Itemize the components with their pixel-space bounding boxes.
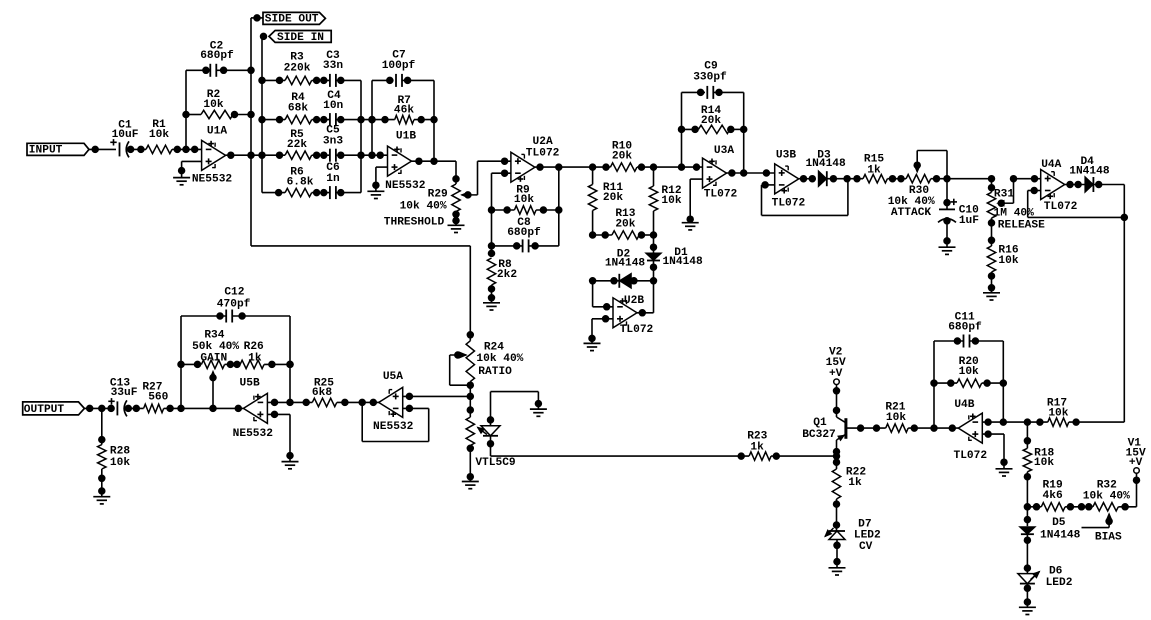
svg-text:VTL5C9: VTL5C9 (475, 457, 516, 469)
wire network to U1B inverting input (361, 152, 388, 159)
diode D1 (646, 235, 704, 281)
svg-text:U5A: U5A (383, 371, 403, 383)
ground at U1B (367, 191, 384, 198)
svg-text:NE5532: NE5532 (373, 421, 414, 433)
svg-text:22k: 22k (287, 139, 307, 151)
svg-text:U4B: U4B (954, 399, 974, 411)
op-amp U4B (954, 399, 988, 462)
svg-text:NE5532: NE5532 (233, 428, 274, 440)
ground at U2B (584, 343, 601, 350)
svg-text:R34: R34 (204, 329, 224, 341)
svg-text:10k 40%: 10k 40% (1083, 490, 1130, 502)
wire U1B non-inverting input to ground (373, 167, 388, 191)
ground at VTL5C9 LDR (462, 482, 479, 489)
wire U4B inverting input (982, 419, 1048, 426)
wire R29 wiper to U2A non-inverting input (478, 158, 511, 195)
wire INPUT to C1 (89, 146, 116, 153)
wire C7 left bus (369, 80, 376, 158)
capacitor C8 (492, 217, 559, 253)
svg-text:1N4148: 1N4148 (1069, 166, 1110, 178)
resistor R23 (747, 431, 771, 461)
svg-text:U3B: U3B (776, 149, 796, 161)
wire R31 to U4A non-inverting input (1014, 175, 1041, 182)
potentiometer R24 RATIO (450, 341, 524, 417)
resistor R2 (186, 89, 251, 119)
svg-text:INPUT: INPUT (29, 144, 63, 156)
capacitor C2 (186, 40, 251, 77)
SIDE IN port flag (260, 31, 331, 44)
resistor R28 (98, 408, 131, 496)
svg-text:100pf: 100pf (382, 60, 416, 72)
capacitor C13 (108, 377, 137, 416)
svg-text:U2A: U2A (533, 136, 553, 148)
ground at D7 (829, 568, 846, 575)
svg-text:D6: D6 (1049, 566, 1063, 578)
svg-text:1N4148: 1N4148 (605, 258, 646, 270)
INPUT port flag (27, 143, 89, 156)
svg-text:SIDE IN: SIDE IN (277, 32, 324, 44)
svg-text:C12: C12 (224, 287, 244, 299)
wire U2B non-inverting input to ground (589, 316, 613, 344)
capacitor C4 (312, 90, 361, 126)
svg-text:TL072: TL072 (1044, 201, 1078, 213)
svg-text:1N4148: 1N4148 (662, 256, 703, 268)
svg-text:680pf: 680pf (507, 227, 541, 239)
svg-text:20k: 20k (603, 192, 623, 204)
resistor R11 (588, 167, 623, 235)
wire U2A inverting input feedback (488, 170, 511, 257)
resistor R16 (987, 244, 1019, 292)
potentiometer R34 GAIN (178, 329, 241, 408)
wire U1A non-inverting input to ground (178, 161, 201, 177)
resistor R14 (682, 105, 744, 133)
resistor R17 (1047, 398, 1124, 427)
svg-text:10k: 10k (959, 366, 979, 378)
wire U1A output (226, 152, 262, 159)
side-chain bus vertical (248, 18, 255, 246)
wire R1 to U1A inverting input (172, 146, 202, 153)
svg-text:RATIO: RATIO (478, 366, 512, 378)
svg-text:20k: 20k (612, 150, 632, 162)
wire U5A non-inverting input (403, 393, 471, 400)
potentiometer R29 THRESHOLD (384, 176, 478, 229)
capacitor C3 (312, 50, 361, 87)
svg-text:RELEASE: RELEASE (998, 219, 1045, 231)
resistor R27 (142, 381, 168, 412)
op-amp U3B (772, 149, 806, 209)
ground at R28 (93, 497, 110, 504)
svg-text:33uF: 33uF (111, 387, 138, 399)
svg-text:330pf: 330pf (693, 71, 727, 83)
svg-text:10uF: 10uF (112, 129, 139, 141)
svg-text:3n3: 3n3 (323, 136, 343, 148)
wire C9/R14 left bus (678, 92, 685, 167)
svg-text:NE5532: NE5532 (385, 180, 426, 192)
svg-text:U2B: U2B (624, 295, 644, 307)
resistor R10 (610, 141, 637, 172)
svg-text:1n: 1n (326, 173, 340, 185)
resistor R18 (1023, 422, 1054, 507)
svg-text:NE5532: NE5532 (192, 173, 233, 185)
wire U2A feedback right bus (556, 167, 563, 246)
svg-text:10k 40%: 10k 40% (476, 353, 523, 365)
svg-text:68k: 68k (288, 102, 308, 114)
svg-text:U3A: U3A (714, 145, 734, 157)
capacitor C1 (110, 119, 138, 157)
svg-text:10n: 10n (323, 100, 343, 112)
svg-text:1k: 1k (750, 441, 764, 453)
svg-text:20k: 20k (615, 218, 635, 230)
svg-text:SIDE OUT: SIDE OUT (265, 13, 319, 25)
resistor R15 (863, 153, 906, 183)
wire U3B feedback loop (762, 179, 848, 216)
svg-text:OUTPUT: OUTPUT (24, 404, 65, 416)
ground at R8 (483, 303, 500, 310)
svg-text:1N4148: 1N4148 (805, 158, 846, 170)
resistor R21 (885, 402, 934, 433)
wire Q1 collector (833, 440, 840, 469)
svg-text:10k: 10k (998, 255, 1018, 267)
wire U5A inverting feedback loop (362, 402, 429, 441)
resistor R3 (262, 52, 312, 85)
wire U3B output to D3 (799, 175, 816, 182)
resistor R1 (146, 119, 172, 153)
svg-text:GAIN: GAIN (200, 352, 227, 364)
resistor R22 (832, 467, 866, 532)
LED D6 (1018, 566, 1073, 608)
svg-text:680pf: 680pf (200, 50, 234, 62)
resistor R4 (262, 92, 312, 124)
svg-text:LED2: LED2 (854, 529, 881, 541)
photoresistor VTL5C9 LDR (466, 417, 516, 481)
svg-text:10k: 10k (1048, 407, 1068, 419)
svg-text:+V: +V (829, 368, 843, 380)
wire C7/R7 right bus (431, 80, 438, 161)
svg-text:6.8k: 6.8k (287, 177, 314, 189)
svg-text:50k 40%: 50k 40% (192, 341, 239, 353)
wire U3A non-inverting input to ground (687, 179, 703, 223)
svg-text:R29: R29 (428, 188, 448, 200)
svg-text:R30: R30 (909, 185, 929, 197)
svg-text:BC327: BC327 (802, 429, 836, 441)
resistor R6 (262, 166, 314, 197)
svg-text:TL072: TL072 (772, 197, 806, 209)
svg-text:1uF: 1uF (959, 215, 979, 227)
ground at U4B (996, 469, 1013, 476)
potentiometer R32 BIAS (1082, 480, 1137, 544)
svg-text:TL072: TL072 (704, 188, 738, 200)
wire C11/R20 right bus (1002, 341, 1004, 422)
resistor R25 (312, 378, 379, 407)
svg-text:R31: R31 (994, 188, 1014, 200)
LED D7 (825, 519, 881, 568)
svg-text:U4A: U4A (1041, 159, 1061, 171)
supply V2 +15V (826, 346, 846, 417)
svg-text:220k: 220k (284, 63, 311, 75)
svg-text:BIAS: BIAS (1095, 532, 1122, 544)
svg-text:6k8: 6k8 (312, 387, 332, 399)
capacitor C7 (372, 50, 434, 87)
ground at R29 (448, 225, 465, 232)
filter network right bus (358, 80, 365, 192)
transistor Q1 BC327 (802, 417, 885, 441)
svg-text:20k: 20k (701, 115, 721, 127)
svg-text:10k: 10k (886, 412, 906, 424)
wire C13 to R27 (125, 405, 144, 412)
capacitor C11 (934, 312, 1003, 348)
svg-text:10k: 10k (203, 99, 223, 111)
svg-text:THRESHOLD: THRESHOLD (384, 216, 445, 228)
wire U5B non-inverting input to ground (267, 411, 293, 461)
wire U4A output to D4 (1065, 181, 1085, 188)
svg-text:10k: 10k (149, 129, 169, 141)
ground at U1A (173, 178, 190, 185)
VTL5C9 LED top wire to ground (487, 392, 541, 426)
SIDE OUT port flag (251, 12, 325, 25)
svg-text:Q1: Q1 (813, 417, 827, 429)
diode D5 (1019, 507, 1080, 574)
wire U3A output to U3B (727, 170, 775, 177)
resistor R8 (487, 258, 517, 303)
capacitor C5 (312, 125, 361, 162)
resistor R9 (492, 184, 559, 214)
ground at C10 (939, 247, 956, 254)
svg-text:1k: 1k (248, 352, 262, 364)
op-amp U5A (373, 371, 414, 433)
wire U2A output to R10 (535, 164, 611, 171)
op-amp U5B (233, 377, 274, 440)
potentiometer R30 ATTACK (888, 151, 951, 220)
svg-text:470pf: 470pf (217, 298, 251, 310)
wire OUTPUT to C13 (84, 405, 114, 412)
svg-text:560: 560 (148, 391, 168, 403)
svg-text:R24: R24 (484, 342, 504, 354)
resistor R7 (361, 95, 434, 124)
ground at U5B (282, 462, 299, 469)
svg-text:U5B: U5B (240, 377, 260, 389)
svg-text:CV: CV (859, 541, 873, 553)
control voltage right bus (1121, 185, 1128, 423)
diode D2 (589, 249, 656, 289)
potentiometer R31 RELEASE (987, 175, 1045, 246)
op-amp U4A (1041, 159, 1078, 213)
wire U1B output (412, 158, 457, 179)
wire R10 to U3A inverting input (637, 164, 703, 171)
wire C9/R14 right bus (740, 92, 747, 173)
op-amp U3A (703, 145, 738, 201)
resistor R12 (649, 167, 682, 235)
svg-text:ATTACK: ATTACK (891, 207, 932, 219)
capacitor C9 (682, 61, 744, 99)
wire U1A feedback node vertical (183, 70, 190, 149)
svg-text:1N4148: 1N4148 (1040, 529, 1081, 541)
svg-text:46k: 46k (394, 104, 414, 116)
resistor R13 (589, 208, 656, 239)
diode D4 (1069, 156, 1124, 193)
svg-text:R26: R26 (244, 341, 264, 353)
ground at R16 (983, 293, 1000, 300)
ground at U3A (682, 223, 699, 230)
svg-text:1k: 1k (848, 477, 862, 489)
capacitor C6 (312, 162, 361, 199)
VTL5C9 LED (481, 426, 500, 456)
capacitor C10 (938, 179, 979, 248)
resistor R26 (240, 341, 293, 369)
wire C11/R20 left bus (933, 341, 935, 428)
op-amp U1B (385, 131, 426, 192)
resistor R5 (262, 129, 312, 159)
svg-text:LED2: LED2 (1046, 577, 1073, 589)
svg-text:10k: 10k (1034, 457, 1054, 469)
CV wire to R23 (491, 453, 750, 460)
side-in bus vertical (259, 36, 266, 192)
op-amp U2A (511, 136, 560, 182)
svg-text:U1B: U1B (396, 131, 416, 143)
svg-text:U1A: U1A (207, 126, 227, 138)
svg-text:10k: 10k (514, 194, 534, 206)
wire R30 to R31 (947, 178, 992, 180)
svg-text:10k: 10k (110, 457, 130, 469)
svg-text:4k6: 4k6 (1043, 490, 1063, 502)
svg-text:1k: 1k (867, 164, 881, 176)
OUTPUT port flag (23, 402, 85, 416)
wire U5B inverting input (267, 399, 312, 406)
wire C1 to R1 (127, 146, 146, 153)
op-amp U1A (192, 126, 233, 186)
svg-text:2k2: 2k2 (497, 269, 517, 281)
wire C12/R26 right bus (287, 316, 294, 402)
capacitor C12 (181, 287, 290, 323)
wire C12/R34 left bus (180, 316, 182, 408)
wire R27 to U5B output (164, 405, 244, 412)
wire R23 to Q1 (771, 453, 840, 460)
resistor R19 (1024, 480, 1093, 511)
wire R21 to U4B output (931, 425, 959, 432)
svg-text:D5: D5 (1052, 517, 1066, 529)
wire U4A inverting input feedback (1028, 187, 1125, 217)
supply V1 +15V (1126, 438, 1146, 507)
op-amp U2B (613, 295, 654, 336)
svg-text:680pf: 680pf (948, 321, 982, 333)
svg-text:+V: +V (1129, 457, 1143, 469)
wire D2 bus to U2B (593, 281, 654, 316)
resistor R20 (931, 356, 1007, 387)
svg-text:10k: 10k (661, 195, 681, 207)
side-chain wire to RATIO (251, 246, 474, 341)
svg-text:R28: R28 (110, 446, 130, 458)
svg-text:10k 40%: 10k 40% (400, 200, 447, 212)
diode D3 (805, 149, 863, 186)
svg-text:TL072: TL072 (526, 148, 560, 160)
ground at D6 (1019, 607, 1036, 614)
svg-text:33n: 33n (323, 60, 343, 72)
ground at VTL5C9 LED (530, 409, 547, 416)
svg-text:TL072: TL072 (620, 324, 654, 336)
wire U4B non-inverting input to ground (982, 431, 1007, 469)
svg-text:TL072: TL072 (954, 450, 988, 462)
